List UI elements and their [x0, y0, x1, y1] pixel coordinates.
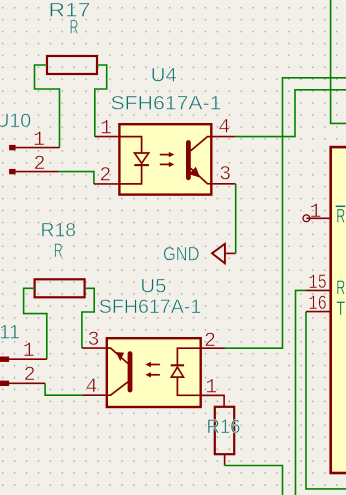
wire U10 pin2 to U4 pin2 — [59, 172, 94, 184]
wire R17 right to U4 pin1 — [95, 65, 107, 137]
svg-text:TX: TX — [336, 299, 346, 320]
svg-text:R16: R16 — [207, 416, 241, 438]
svg-text:U4: U4 — [151, 64, 177, 86]
svg-text:3: 3 — [87, 329, 99, 352]
U5 pin 4 line — [83, 394, 107, 396]
svg-text:SFH617A-1: SFH617A-1 — [111, 93, 222, 115]
opto-coupler U4 — [94, 124, 236, 194]
U4 pin 3 line — [211, 183, 235, 185]
svg-text:4: 4 — [85, 376, 97, 399]
svg-text:R: R — [336, 207, 345, 228]
U5 LED — [177, 348, 200, 365]
svg-text:SFH617A-1: SFH617A-1 — [99, 296, 202, 318]
svg-text:1: 1 — [33, 129, 45, 152]
R16 bottom stub — [224, 454, 226, 465]
ground — [212, 244, 236, 263]
wire R18 left to U11 pin1 — [24, 288, 47, 359]
U5 pin 3 line — [82, 347, 107, 349]
U4 pin 2 line — [94, 183, 120, 185]
svg-text:1: 1 — [100, 117, 112, 140]
U4 pin 1 line — [95, 136, 120, 138]
U11 pin 1 — [0, 357, 9, 362]
U2 pin 1 (inverted) — [303, 215, 310, 222]
connector U10 — [9, 145, 59, 174]
wire U5 pin1 to R16 (dark connector) — [201, 395, 224, 407]
wire R17 left to U10 pin1 — [35, 65, 60, 148]
U4 LED — [119, 137, 141, 153]
wire top-right corner — [331, 0, 346, 123]
resistor R18 — [35, 279, 85, 297]
IC U2 (right, partially visible) — [303, 147, 346, 473]
svg-text:R: R — [336, 278, 345, 299]
svg-text:2: 2 — [99, 165, 111, 188]
U4 coupling arrows — [160, 154, 171, 156]
svg-text:1: 1 — [23, 340, 35, 363]
U2 pin 15 — [306, 289, 331, 291]
wire R18 right to U5 pin3 — [82, 288, 94, 348]
U4 phototransistor — [186, 143, 191, 178]
U11 pin 2 — [0, 381, 9, 386]
svg-text:U11: U11 — [0, 321, 20, 343]
U4 body — [119, 124, 211, 194]
svg-text:2: 2 — [204, 330, 216, 353]
U5 phototransistor — [128, 354, 133, 391]
svg-text:GND: GND — [163, 243, 200, 265]
connector U11 — [0, 357, 47, 387]
wire U4 pin3 to GND — [235, 184, 237, 254]
svg-text:U5: U5 — [140, 276, 166, 298]
svg-text:1: 1 — [309, 201, 321, 224]
resistor R16 — [215, 407, 234, 454]
svg-text:1: 1 — [205, 377, 217, 400]
opto-coupler U5 — [82, 338, 225, 407]
resistor R17 — [47, 56, 97, 74]
svg-text:R: R — [70, 16, 79, 38]
wire U11 pin2 to U5 pin4 — [45, 383, 83, 395]
wire R16 bottom to bottom edge — [225, 466, 283, 495]
U5 pin 2 line — [201, 347, 225, 349]
svg-text:2: 2 — [24, 364, 36, 387]
U10 pin 2 — [9, 169, 16, 174]
svg-text:U10: U10 — [0, 110, 31, 132]
U4 pin 4 line — [211, 136, 235, 138]
svg-text:3: 3 — [219, 164, 231, 187]
svg-text:R: R — [54, 240, 63, 262]
svg-text:16: 16 — [308, 293, 327, 316]
svg-text:2: 2 — [33, 153, 45, 176]
wire U4 pin4 to right edge — [235, 90, 346, 137]
U10 pin 1 — [9, 145, 16, 150]
U5 body — [107, 338, 201, 407]
wire U2 pin15 to bottom edge — [296, 290, 306, 495]
svg-text:15: 15 — [308, 272, 327, 295]
svg-text:R18: R18 — [41, 219, 77, 241]
svg-text:4: 4 — [218, 117, 230, 140]
U5 coupling arrows — [149, 364, 160, 366]
U2 pin 16 — [306, 311, 331, 313]
U5 pin 1 line — [201, 394, 224, 396]
U2 body — [331, 147, 346, 473]
wire top-right horizontal into vertical bus — [225, 78, 346, 348]
wire U2 pin16 to bottom right — [306, 312, 346, 489]
